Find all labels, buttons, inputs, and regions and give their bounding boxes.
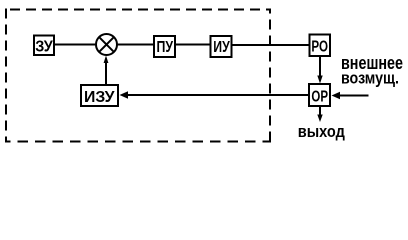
svg-text:ЗУ: ЗУ xyxy=(35,39,53,56)
svg-text:ИЗУ: ИЗУ xyxy=(84,89,116,106)
svg-text:выход: выход xyxy=(298,122,345,141)
svg-text:РО: РО xyxy=(311,39,328,56)
svg-text:возмущ.: возмущ. xyxy=(341,68,399,87)
svg-text:ПУ: ПУ xyxy=(157,39,174,56)
svg-text:ИУ: ИУ xyxy=(213,39,230,56)
svg-text:ОР: ОР xyxy=(311,88,328,105)
